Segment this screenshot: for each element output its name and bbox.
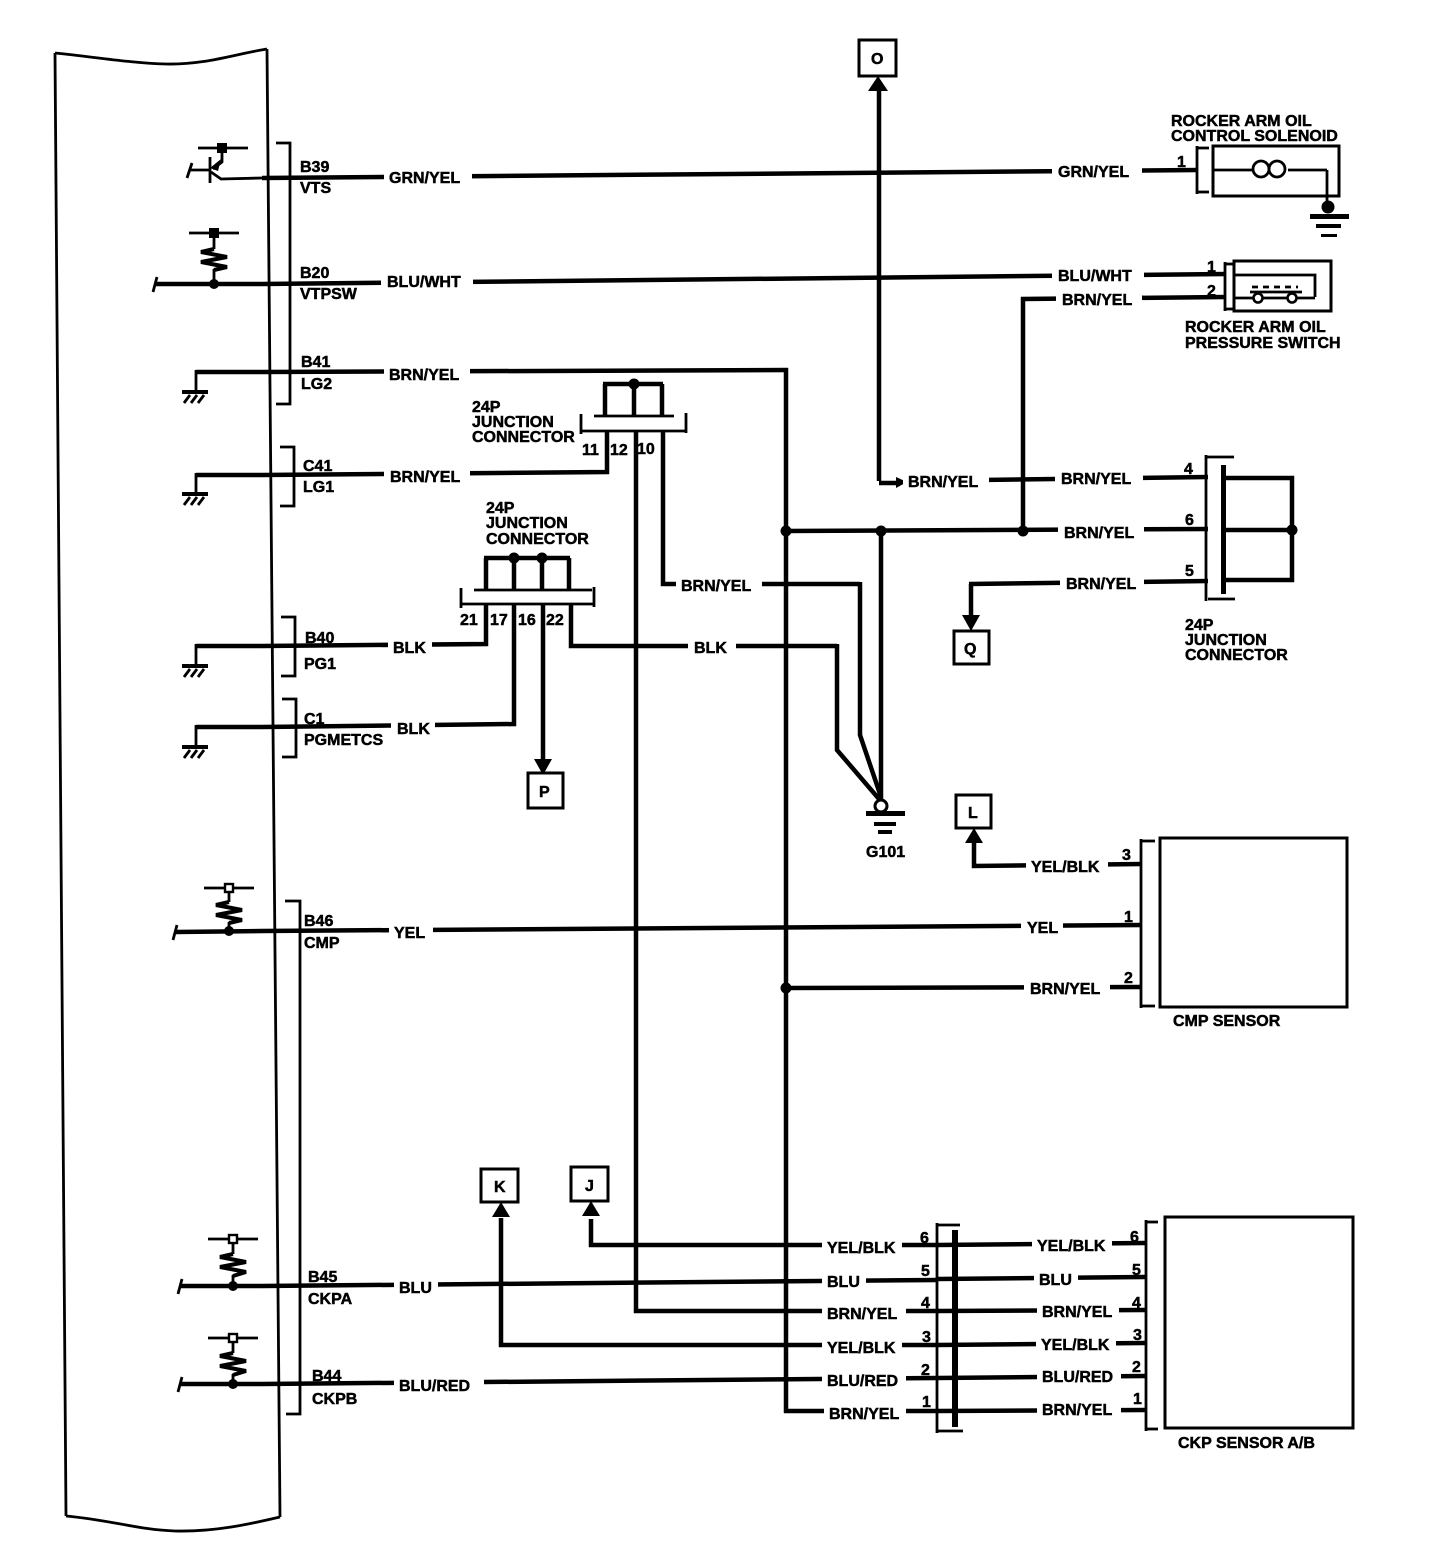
- 24P junction connector right (pins 4,6,5): [1184, 455, 1298, 664]
- WIRES-LAYER: [262, 88, 1226, 1413]
- svg-text:BRN/YEL: BRN/YEL: [1042, 1402, 1112, 1419]
- svg-text:CONNECTOR: CONNECTOR: [1185, 647, 1288, 664]
- label BLU/WHT left: [381, 270, 473, 290]
- svg-text:11: 11: [582, 442, 599, 459]
- svg-text:JUNCTION: JUNCTION: [486, 515, 568, 532]
- label YEL B46: [389, 921, 433, 941]
- svg-text:BRN/YEL: BRN/YEL: [390, 469, 460, 486]
- svg-text:3: 3: [922, 1329, 931, 1346]
- svg-text:YEL/BLK: YEL/BLK: [1037, 1238, 1106, 1255]
- svg-text:BRN/YEL: BRN/YEL: [1042, 1304, 1112, 1321]
- svg-text:BRN/YEL: BRN/YEL: [1062, 292, 1132, 309]
- svg-text:BRN/YEL: BRN/YEL: [1066, 576, 1136, 593]
- wire BRN/YEL bus drop to G101: [879, 529, 884, 801]
- rocker arm oil control solenoid: [1171, 113, 1349, 237]
- wire BRN/YEL B41 horizontal: [262, 370, 788, 372]
- svg-text:21: 21: [460, 612, 478, 629]
- label BRN/YEL B41: [384, 363, 470, 383]
- svg-text:GRN/YEL: GRN/YEL: [389, 170, 460, 187]
- label BRN/YEL CKP row4: [1037, 1300, 1119, 1319]
- connector box P: [528, 773, 563, 808]
- label BLU/WHT right: [1052, 266, 1144, 285]
- svg-text:BLU: BLU: [399, 1280, 432, 1297]
- svg-text:CKP SENSOR A/B: CKP SENSOR A/B: [1178, 1435, 1315, 1452]
- svg-text:YEL/BLK: YEL/BLK: [1041, 1337, 1110, 1354]
- wire YEL/BLK from L to CMP pin 3: [974, 843, 1142, 866]
- svg-text:P: P: [539, 784, 550, 801]
- svg-text:G101: G101: [866, 844, 905, 861]
- label BRN/YEL 6P row4 left: [822, 1302, 906, 1321]
- pin group bracket B40: [281, 617, 295, 676]
- ground at C41: [182, 473, 262, 505]
- svg-text:ROCKER ARM OIL: ROCKER ARM OIL: [1185, 319, 1326, 336]
- pin group bracket C1: [282, 699, 296, 757]
- svg-text:1: 1: [1133, 1391, 1142, 1408]
- label GRN/YEL left: [384, 166, 472, 186]
- svg-text:YEL/BLK: YEL/BLK: [827, 1340, 896, 1357]
- svg-text:B39: B39: [300, 159, 329, 176]
- svg-text:J: J: [585, 1178, 594, 1195]
- arrow into K box: [492, 1202, 510, 1217]
- label BLK pin22 wire: [688, 637, 736, 656]
- svg-text:PG1: PG1: [304, 656, 336, 673]
- svg-text:2: 2: [1207, 283, 1216, 300]
- label BLK C1: [391, 717, 435, 737]
- wire YEL/BLK from K to 6P pin 3: [501, 1218, 937, 1345]
- ECM connector body (torn strip): [55, 49, 280, 1531]
- svg-text:BLU: BLU: [827, 1274, 860, 1291]
- arrow into L box: [965, 828, 983, 843]
- svg-text:LG2: LG2: [301, 376, 332, 393]
- svg-text:CKPA: CKPA: [308, 1291, 353, 1308]
- ground at C1: [182, 725, 262, 758]
- label BLU 6P row5 left: [822, 1270, 866, 1289]
- svg-text:BLU/WHT: BLU/WHT: [387, 274, 461, 291]
- label YEL/BLK 6P row6 left: [822, 1236, 902, 1255]
- label BRN/YEL bus row6: [1058, 522, 1144, 541]
- svg-text:4: 4: [921, 1295, 930, 1312]
- junction dot trunk/CMP pin2: [781, 983, 792, 994]
- svg-text:CMP SENSOR: CMP SENSOR: [1173, 1013, 1281, 1030]
- svg-text:4: 4: [1184, 461, 1193, 478]
- svg-text:CMP: CMP: [304, 935, 340, 952]
- LABELS-LAYER: [381, 160, 1144, 1423]
- wire BLU/WHT B20 to pressure switch pin 1: [262, 274, 1226, 284]
- wire junction pin 12 down to CKP row 4: [636, 430, 939, 1311]
- svg-text:PRESSURE SWITCH: PRESSURE SWITCH: [1185, 335, 1341, 352]
- wire BRN/YEL pressure switch pin 2 drop: [1023, 297, 1226, 533]
- svg-text:6: 6: [920, 1230, 929, 1247]
- svg-text:3: 3: [1122, 847, 1131, 864]
- 24P junction connector lower (pins 21,17,16,22): [461, 553, 594, 609]
- wire BLU B45 to 6P connector pin 5: [262, 1280, 937, 1286]
- pin group bracket B46-B44: [285, 901, 300, 1414]
- svg-text:B45: B45: [308, 1269, 337, 1286]
- connector box Q: [954, 631, 989, 664]
- svg-text:O: O: [871, 51, 883, 68]
- wire BLU/RED B44 to 6P connector pin 2: [262, 1378, 937, 1384]
- junction dot bus/trunk x786: [781, 526, 792, 537]
- svg-text:BRN/YEL: BRN/YEL: [1064, 525, 1134, 542]
- svg-text:5: 5: [1132, 1262, 1141, 1279]
- arrow into P box: [534, 759, 552, 775]
- svg-text:1: 1: [922, 1394, 931, 1411]
- wire BRN/YEL row to 24P pin 4 and up to O: [877, 88, 882, 481]
- label YEL/BLK L wire: [1026, 856, 1108, 875]
- label BRN/YEL row4 left: [903, 470, 989, 489]
- svg-text:BLU/RED: BLU/RED: [1042, 1369, 1113, 1386]
- svg-text:1: 1: [1177, 154, 1186, 171]
- 6P inline connector (CKP harness): [920, 1223, 963, 1433]
- svg-text:YEL/BLK: YEL/BLK: [1031, 859, 1100, 876]
- resistor at B46 inside ECM: [173, 884, 262, 940]
- svg-text:BRN/YEL: BRN/YEL: [1061, 471, 1131, 488]
- label BRN/YEL 6P row1 left: [824, 1402, 906, 1421]
- svg-text:K: K: [494, 1179, 506, 1196]
- wire BLK junction pin 22 to G101: [571, 604, 837, 646]
- svg-text:12: 12: [610, 442, 628, 459]
- label YEL CMP pin 1: [1021, 917, 1063, 936]
- svg-text:C1: C1: [304, 711, 325, 728]
- label BLK B40: [388, 636, 432, 656]
- ground at B40: [182, 644, 262, 677]
- rocker arm oil pressure switch: [1185, 259, 1341, 352]
- svg-text:BRN/YEL: BRN/YEL: [908, 474, 978, 491]
- box L: [956, 795, 991, 828]
- label BLU CKP row5: [1034, 1268, 1078, 1287]
- svg-text:1: 1: [1124, 909, 1133, 926]
- wire BRN/YEL vertical trunk x=786: [784, 368, 789, 1413]
- label BLU/RED CKP row2: [1037, 1365, 1121, 1384]
- svg-text:2: 2: [921, 1362, 930, 1379]
- svg-text:PGMETCS: PGMETCS: [304, 732, 383, 749]
- svg-text:BRN/YEL: BRN/YEL: [389, 367, 459, 384]
- label YEL/BLK 6P row3 left: [822, 1336, 902, 1355]
- svg-text:BRN/YEL: BRN/YEL: [1030, 981, 1100, 998]
- svg-text:GRN/YEL: GRN/YEL: [1058, 164, 1129, 181]
- svg-text:CONTROL SOLENOID: CONTROL SOLENOID: [1171, 128, 1338, 145]
- pin group bracket B39-B41: [276, 143, 290, 404]
- wire BLK C1 to junction pin 17: [262, 604, 514, 727]
- svg-text:2: 2: [1124, 970, 1133, 987]
- resistor at B45 inside ECM: [178, 1235, 262, 1294]
- wire junction pin 16 to P: [541, 604, 546, 762]
- wire BRN/YEL trunk to CMP pin 2: [786, 987, 1142, 988]
- svg-text:BLK: BLK: [393, 640, 426, 657]
- label BLU B45: [394, 1276, 438, 1296]
- wire YEL/BLK from J to 6P pin 6: [591, 1219, 937, 1245]
- 24P junction connector upper (pins 11,12,10): [581, 379, 686, 435]
- arrow into O box: [868, 76, 888, 91]
- wire BRN/YEL junction pin 10 to G101: [663, 430, 860, 584]
- svg-text:YEL: YEL: [1027, 920, 1058, 937]
- svg-text:BRN/YEL: BRN/YEL: [681, 578, 751, 595]
- svg-text:5: 5: [1185, 563, 1194, 580]
- wires 6P connector to CKP sensor rows: [937, 1243, 1146, 1245]
- label YEL/BLK CKP row6: [1032, 1234, 1112, 1253]
- label BRN/YEL CMP pin 2: [1024, 978, 1110, 997]
- svg-text:22: 22: [546, 612, 564, 629]
- wire BRN/YEL to Q from 24P pin 5: [969, 584, 974, 618]
- svg-text:BLK: BLK: [397, 721, 430, 738]
- arrow into J box: [582, 1201, 600, 1216]
- svg-text:BRN/YEL: BRN/YEL: [827, 1306, 897, 1323]
- label BRN/YEL CKP row1: [1037, 1398, 1121, 1417]
- svg-text:10: 10: [637, 441, 655, 458]
- svg-text:B46: B46: [304, 913, 333, 930]
- svg-text:B40: B40: [305, 630, 334, 647]
- svg-text:6: 6: [1185, 512, 1194, 529]
- CKP sensor connector bracket: [1130, 1220, 1158, 1431]
- svg-text:LG1: LG1: [303, 479, 334, 496]
- CMP sensor box: [1160, 838, 1347, 1007]
- transistor Q at B39 inside ECM: [187, 143, 262, 183]
- svg-text:CONNECTOR: CONNECTOR: [486, 531, 589, 548]
- svg-text:YEL/BLK: YEL/BLK: [827, 1240, 896, 1257]
- wire BRN/YEL bus to 24P connector pin 6: [785, 529, 1208, 531]
- box K: [481, 1169, 518, 1202]
- svg-text:C41: C41: [303, 458, 332, 475]
- svg-text:B44: B44: [312, 1368, 341, 1385]
- svg-text:6: 6: [1130, 1229, 1139, 1246]
- label BRN/YEL Q row5: [1060, 573, 1144, 592]
- svg-text:B41: B41: [301, 354, 330, 371]
- CMP sensor connector bracket: [1122, 839, 1155, 1008]
- svg-text:4: 4: [1132, 1295, 1141, 1312]
- label GRN/YEL right: [1052, 160, 1142, 180]
- svg-text:16: 16: [518, 612, 536, 629]
- svg-text:VTPSW: VTPSW: [300, 286, 358, 303]
- svg-text:CONNECTOR: CONNECTOR: [472, 429, 575, 446]
- junction dot bus/switch drop: [1018, 526, 1029, 537]
- svg-text:2: 2: [1132, 1359, 1141, 1376]
- svg-text:BLU: BLU: [1039, 1272, 1072, 1289]
- ground G101: [866, 800, 905, 834]
- arrow into Q box: [962, 615, 980, 631]
- resistor at B44 inside ECM: [178, 1334, 262, 1392]
- svg-text:3: 3: [1133, 1327, 1142, 1344]
- junction dot bus/G101 drop: [876, 526, 887, 537]
- label BRN/YEL row4 right: [1055, 468, 1143, 487]
- CKP sensor box: [1165, 1217, 1353, 1428]
- label YEL/BLK CKP row3: [1036, 1333, 1116, 1352]
- wire BRN/YEL trunk to 6P pin 1: [784, 1409, 937, 1414]
- label BLU/RED 6P row2 left: [822, 1369, 906, 1388]
- svg-text:BLU/RED: BLU/RED: [827, 1373, 898, 1390]
- label BRN/YEL pressure switch pin 2: [1056, 290, 1142, 309]
- label BLU/RED B44: [394, 1374, 484, 1394]
- svg-text:1: 1: [1207, 259, 1216, 276]
- svg-text:Q: Q: [964, 641, 976, 658]
- label BRN/YEL pin10 wire: [676, 575, 762, 594]
- svg-text:17: 17: [490, 612, 508, 629]
- svg-text:BLU/RED: BLU/RED: [399, 1378, 470, 1395]
- svg-text:BLK: BLK: [694, 640, 727, 657]
- ground at B41: [182, 370, 262, 403]
- box J: [571, 1167, 608, 1201]
- box O: [859, 40, 896, 76]
- svg-text:L: L: [968, 805, 978, 822]
- svg-text:BRN/YEL: BRN/YEL: [829, 1406, 899, 1423]
- wire BRN/YEL C41 to junction pin 11: [262, 430, 607, 475]
- svg-text:BLU/WHT: BLU/WHT: [1058, 268, 1132, 285]
- pin group bracket C41: [280, 447, 294, 506]
- wire BLK B40 to junction pin 21: [262, 604, 486, 646]
- label BRN/YEL C41: [384, 465, 470, 485]
- svg-text:B20: B20: [300, 265, 329, 282]
- wire GRN/YEL B39 to solenoid: [262, 170, 1198, 178]
- svg-text:YEL: YEL: [394, 925, 425, 942]
- svg-text:5: 5: [921, 1263, 930, 1280]
- wire YEL B46 to CMP sensor pin 1: [262, 925, 1142, 931]
- svg-text:VTS: VTS: [300, 180, 331, 197]
- resistor at B20 inside ECM: [153, 228, 262, 292]
- svg-text:CKPB: CKPB: [312, 1391, 357, 1408]
